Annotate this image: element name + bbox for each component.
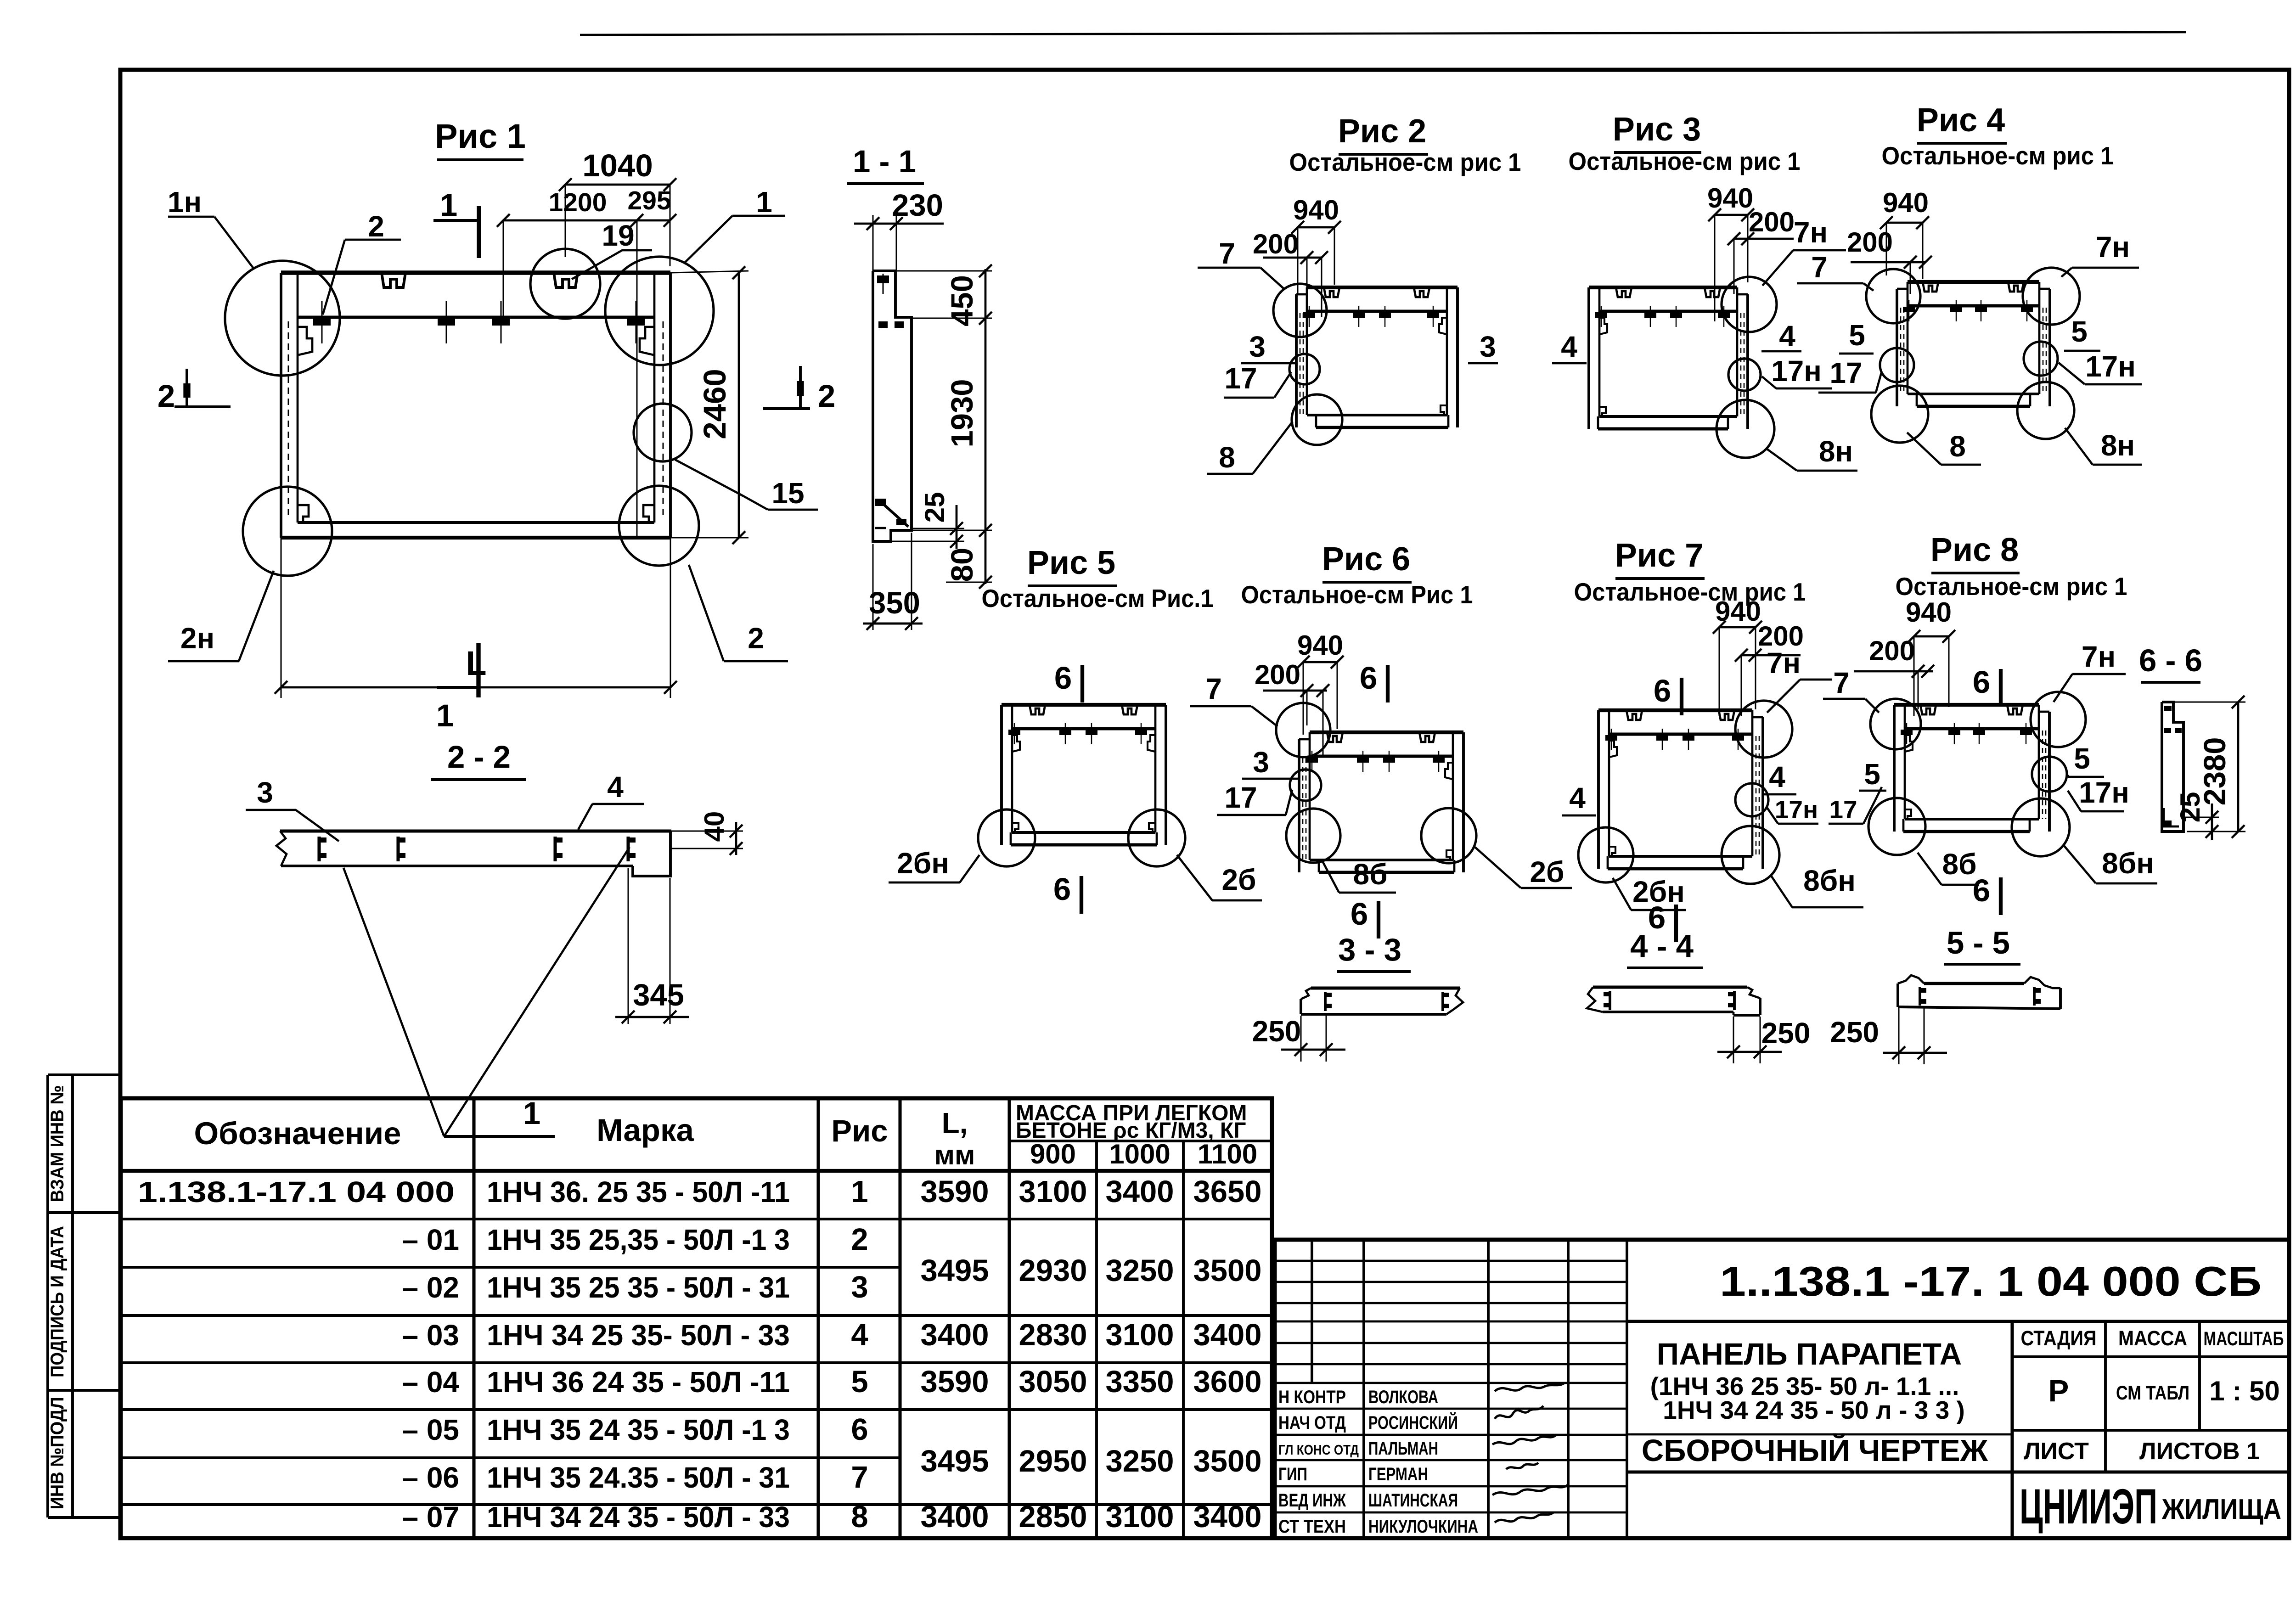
svg-text:1930: 1930 [945, 379, 979, 447]
выноска 8н (Рис 3) [1767, 435, 1857, 471]
метка сечения 6 (Рис 7 низ) [1648, 900, 1676, 942]
svg-text:1НЧ 35 25 35 - 50Л - 31: 1НЧ 35 25 35 - 50Л - 31 [487, 1271, 790, 1304]
выноска 2 (анкер) [323, 210, 401, 315]
svg-text:ВЗАМ ИНВ №: ВЗАМ ИНВ № [47, 1085, 68, 1203]
метка сечения 1 (низ) [436, 643, 478, 733]
арматура сечения 3-3 [1325, 992, 1449, 1011]
заголовок Рис 2 [1289, 113, 1521, 176]
панель Рис 4 - линии стыка [1901, 308, 2046, 394]
панель Рис 2 - ступеньки углов [1439, 318, 1447, 415]
панель Рис 2 - линии стыка [1300, 313, 1303, 415]
панель Рис 5 - ступеньки углов [1012, 735, 1155, 832]
svg-text:ЛИСТОВ 1: ЛИСТОВ 1 [2139, 1438, 2260, 1465]
svg-text:5: 5 [851, 1365, 868, 1399]
svg-text:250: 250 [1830, 1016, 1879, 1049]
боковая графа - надписи [47, 1085, 68, 1510]
скрытые линии панели Рис 1 [288, 321, 663, 519]
svg-text:Рис 3: Рис 3 [1613, 111, 1701, 148]
выноска 17 (Рис 6) [1217, 781, 1292, 815]
svg-text:ГЕРМАН: ГЕРМАН [1368, 1464, 1428, 1484]
svg-text:7: 7 [1811, 251, 1828, 284]
svg-text:– 04: – 04 [402, 1366, 459, 1399]
svg-text:2930: 2930 [1019, 1253, 1087, 1288]
svg-text:– 07: – 07 [402, 1500, 459, 1534]
svg-text:6: 6 [1973, 664, 1990, 700]
svg-text:17: 17 [1829, 356, 1862, 389]
узлы Рис 6 - окружности [1276, 703, 1476, 863]
svg-text:940: 940 [1707, 183, 1753, 214]
размер 200 (Рис 2) [1253, 229, 1328, 317]
svg-text:6: 6 [1351, 896, 1368, 932]
svg-text:3400: 3400 [1193, 1318, 1261, 1352]
svg-text:Остальное-см рис 1: Остальное-см рис 1 [1569, 147, 1801, 175]
svg-text:СТАДИЯ: СТАДИЯ [2021, 1326, 2097, 1350]
svg-text:ЦНИИЭП: ЦНИИЭП [2020, 1478, 2157, 1534]
svg-text:ИНВ №ПОДЛ: ИНВ №ПОДЛ [47, 1397, 68, 1510]
заголовок сечения 4-4 [1627, 928, 1703, 968]
svg-text:3250: 3250 [1105, 1253, 1174, 1288]
панель Рис 6 - ступеньки углов [1445, 763, 1453, 860]
svg-text:7н: 7н [1767, 646, 1801, 680]
svg-text:3590: 3590 [920, 1365, 989, 1399]
штамп - рамка [1275, 1240, 2289, 1538]
svg-text:3350: 3350 [1105, 1365, 1174, 1399]
выноска 8н (Рис 4) [2065, 428, 2142, 465]
выноска 17н (Рис 8) [2068, 776, 2129, 811]
выноска 7 (Рис 6) [1190, 672, 1277, 726]
svg-text:1000: 1000 [1109, 1139, 1170, 1169]
узлы Рис 7 - окружности [1578, 701, 1792, 884]
размер 2380 [2173, 696, 2245, 838]
узлы Рис 2 - окружности [1273, 284, 1342, 445]
таблица - рамка [121, 1098, 1272, 1538]
анкеры сечения 6-6 [2164, 706, 2182, 826]
профиль сечения 6-6 [2162, 702, 2183, 832]
панель Рис 3 - вырезы петель [1616, 287, 1720, 297]
размер 250 (4-4) [1717, 1017, 1810, 1063]
выноска 1 (V-образная, сечение 2-2) [343, 847, 630, 1136]
svg-text:Марка: Марка [597, 1113, 694, 1148]
svg-text:Рис 7: Рис 7 [1615, 537, 1703, 574]
svg-text:4: 4 [607, 770, 624, 804]
svg-text:8бн: 8бн [1803, 864, 1856, 897]
svg-text:8н: 8н [1819, 435, 1853, 468]
выноска 8 (Рис 2) [1207, 421, 1293, 474]
заголовок сечения 2-2 [431, 739, 526, 780]
svg-text:1 - 1: 1 - 1 [853, 144, 916, 179]
панель Рис 6 - вырезы петель [1327, 732, 1435, 742]
заголовок Рис 7 [1574, 537, 1806, 606]
svg-text:4: 4 [1569, 781, 1586, 815]
штамп - левая сетка [1275, 1240, 1627, 1538]
svg-text:1НЧ 35 24.35 - 50Л - 31: 1НЧ 35 24.35 - 50Л - 31 [487, 1461, 790, 1494]
закладные детали (анкеры) Рис 1 [313, 301, 645, 343]
выноска 17н (Рис 4) [2059, 350, 2142, 384]
панель Рис 7 - вырезы петель [1626, 710, 1734, 720]
размер 345 [615, 868, 689, 1024]
svg-text:2бн: 2бн [897, 847, 949, 880]
svg-text:Рис 4: Рис 4 [1917, 102, 2005, 139]
заголовок Рис 3 [1569, 111, 1801, 175]
панель Рис 7 - анкеры [1605, 729, 1744, 750]
углы-ступеньки панели Рис 1 [298, 327, 654, 523]
svg-text:2950: 2950 [1019, 1444, 1087, 1478]
svg-text:СМ ТАБЛ: СМ ТАБЛ [2116, 1382, 2189, 1404]
svg-text:7н: 7н [1794, 216, 1828, 249]
svg-text:1: 1 [436, 698, 454, 733]
выноска 8б (Рис 6) [1322, 858, 1396, 893]
svg-text:1: 1 [756, 185, 772, 219]
svg-text:Н КОНТР: Н КОНТР [1278, 1387, 1346, 1407]
svg-text:НИКУЛОЧКИНА: НИКУЛОЧКИНА [1368, 1517, 1478, 1537]
панель Рис 8 - контур [1894, 705, 2049, 832]
svg-text:2: 2 [851, 1222, 868, 1257]
svg-text:900: 900 [1030, 1139, 1076, 1169]
svg-text:3100: 3100 [1105, 1500, 1174, 1534]
svg-text:Остальное-см Рис 1: Остальное-см Рис 1 [1241, 580, 1473, 609]
svg-text:80: 80 [945, 548, 979, 582]
svg-text:3: 3 [1249, 330, 1266, 363]
svg-text:4: 4 [1769, 760, 1785, 793]
svg-text:3400: 3400 [1193, 1500, 1261, 1534]
svg-text:ВОЛКОВА: ВОЛКОВА [1368, 1387, 1438, 1407]
svg-text:8б: 8б [1942, 848, 1976, 881]
svg-text:8б: 8б [1353, 858, 1387, 891]
svg-text:1НЧ 34 24 35 - 50 л - 3 3 ): 1НЧ 34 24 35 - 50 л - 3 3 ) [1663, 1396, 1965, 1424]
панель Рис 2 - контур [1296, 287, 1458, 427]
метка 5 (Рис 4, слева) [1839, 319, 1874, 354]
svg-text:– 06: – 06 [402, 1461, 459, 1494]
панель Рис 8 - анкеры [1901, 723, 2032, 744]
svg-text:1.138.1-17.1 04 000: 1.138.1-17.1 04 000 [138, 1175, 455, 1208]
штамп - росписи [1492, 1383, 1568, 1523]
выноска 8бн (Рис 8) [2064, 845, 2157, 883]
svg-text:Остальное-см рис 1: Остальное-см рис 1 [1896, 572, 2127, 601]
размер 230 [854, 188, 944, 271]
арматура сечения 5-5 [1920, 987, 2041, 1006]
svg-text:ГИП: ГИП [1278, 1464, 1307, 1484]
плита сечения 2-2 [276, 831, 671, 876]
метка сечения 6 (Рис 8 верх) [1973, 664, 2001, 707]
svg-text:Рис 5: Рис 5 [1027, 545, 1115, 581]
svg-text:200: 200 [1869, 635, 1915, 666]
панель Рис 4 - анкеры [1903, 300, 2033, 321]
svg-text:3: 3 [257, 776, 273, 809]
заголовок Рис 8 [1896, 532, 2127, 601]
svg-text:1040: 1040 [582, 148, 653, 183]
панель Рис 4 - ступеньки углов [0, 0, 0, 0]
выноска 3 (сечение 2-2) [246, 776, 339, 841]
svg-text:1: 1 [851, 1174, 868, 1209]
размер 940 (Рис 8) [1906, 597, 1955, 716]
метка 4 (Рис 7, слева) [1562, 781, 1596, 815]
размер 940 (Рис 2) [1291, 195, 1341, 294]
svg-text:6: 6 [1973, 873, 1990, 908]
svg-text:250: 250 [1761, 1017, 1811, 1050]
панель Рис 2 - анкеры [1303, 306, 1439, 327]
заголовок сечения 6-6 [2139, 643, 2202, 682]
штамп - наименование [1627, 1321, 2289, 1538]
svg-text:5: 5 [1849, 319, 1865, 352]
svg-text:25: 25 [919, 492, 950, 523]
svg-text:1НЧ 36 24 35 - 50Л -11: 1НЧ 36 24 35 - 50Л -11 [487, 1366, 790, 1399]
svg-text:2: 2 [158, 378, 175, 414]
выноска 7н (Рис 3) [1762, 216, 1846, 286]
выноска 7н (Рис 8) [2054, 640, 2126, 702]
заголовок Рис 4 [1882, 102, 2114, 170]
svg-text:5: 5 [1864, 758, 1880, 791]
размер 940 (Рис 4) [1880, 187, 1929, 279]
метка 4 (Рис 3, справа) [1761, 320, 1801, 353]
размер 2460 [670, 266, 748, 544]
svg-text:3100: 3100 [1019, 1174, 1087, 1209]
svg-text:ПОДПИСЬ И ДАТА: ПОДПИСЬ И ДАТА [47, 1226, 68, 1377]
svg-text:3600: 3600 [1193, 1365, 1261, 1399]
выноска 17н (Рис 7) [1766, 795, 1818, 824]
svg-text:4: 4 [851, 1318, 868, 1352]
размер 940 (Рис 6) [1297, 630, 1344, 735]
выноска 2бн (Рис 7) [1613, 875, 1686, 910]
метка сечения 6 (Рис 6 верх) [1360, 660, 1388, 702]
панель Рис 6 - контур [1299, 732, 1463, 872]
выноска 7н (Рис 7) [1767, 646, 1832, 713]
svg-text:СТ ТЕХН: СТ ТЕХН [1278, 1517, 1346, 1537]
заголовок Рис 6 [1241, 541, 1473, 609]
svg-text:1: 1 [440, 187, 457, 223]
svg-text:НАЧ ОТД: НАЧ ОТД [1278, 1413, 1346, 1433]
svg-text:295: 295 [627, 186, 671, 215]
svg-text:250: 250 [1252, 1015, 1301, 1048]
svg-text:Остальное-см Рис.1: Остальное-см Рис.1 [982, 584, 1214, 613]
панель Рис 4 - вырезы петель [1923, 282, 2024, 292]
выноска 8бн (Рис 7) [1771, 864, 1863, 907]
заголовок Рис 5 [982, 545, 1214, 613]
размер 250 (3-3) [1252, 1014, 1345, 1062]
метка сечения 6 (Рис 5 низ) [1053, 871, 1081, 914]
svg-text:940: 940 [1906, 597, 1952, 628]
svg-text:6 - 6: 6 - 6 [2139, 643, 2202, 678]
размерная цепочка 450 / 1930 / 80 [895, 264, 992, 589]
svg-text:2460: 2460 [697, 369, 732, 439]
svg-text:1 : 50: 1 : 50 [2209, 1376, 2279, 1406]
метка 3 (Рис 6) [1242, 746, 1300, 779]
svg-text:ПАНЕЛЬ ПАРАПЕТА: ПАНЕЛЬ ПАРАПЕТА [1657, 1337, 1962, 1371]
svg-text:200: 200 [1255, 659, 1300, 690]
метка 4 (Рис 7, справа) [1762, 760, 1796, 794]
размер 350 [863, 533, 923, 630]
svg-text:940: 940 [1715, 596, 1761, 627]
метка 3 (Рис 2, слева) [1241, 330, 1296, 363]
svg-text:мм: мм [934, 1140, 975, 1170]
выноска 7н (Рис 4) [2061, 230, 2139, 277]
svg-text:L,: L, [942, 1107, 968, 1140]
панель Рис 4 - контур [1897, 282, 2050, 406]
выноска 1 [684, 185, 785, 264]
размер 200 (Рис 6) [1255, 659, 1329, 758]
svg-text:2н: 2н [180, 622, 214, 655]
svg-text:ПАЛЬМАН: ПАЛЬМАН [1368, 1439, 1438, 1459]
svg-text:7н: 7н [2096, 230, 2130, 264]
svg-text:40: 40 [699, 811, 730, 842]
svg-text:2 - 2: 2 - 2 [447, 739, 511, 775]
таблица - заголовки [194, 1101, 1257, 1170]
панель Рис 3 - ступеньки углов [1599, 318, 1607, 416]
панель Рис 8 - ступеньки углов [1905, 735, 1913, 819]
плита сечения 3-3 [1301, 988, 1463, 1014]
метка сечения 2 (справа) [763, 366, 835, 414]
панель Рис 5 - анкеры [1008, 723, 1147, 744]
узлы Рис 8 - окружности [1868, 692, 2086, 856]
svg-text:2850: 2850 [1019, 1500, 1087, 1534]
метка сечения 6 (Рис 8 низ) [1973, 873, 2001, 915]
выноска 4 (сечение 2-2) [578, 770, 644, 830]
svg-text:3: 3 [851, 1270, 868, 1304]
svg-text:6: 6 [1654, 673, 1671, 708]
панель Рис 7 - линии стыка [1756, 736, 1759, 856]
панель Рис 8 - вырезы петель [1920, 705, 2023, 714]
панель Рис 3 - линии стыка [1741, 313, 1744, 416]
svg-text:8: 8 [851, 1500, 868, 1534]
svg-text:15: 15 [771, 477, 804, 510]
панель Рис 8 - линии стыка [2043, 731, 2046, 819]
svg-text:Обозначение: Обозначение [194, 1116, 401, 1151]
размер 40 [671, 811, 743, 855]
выноска 15 [675, 460, 818, 510]
svg-text:5: 5 [2071, 315, 2088, 348]
svg-text:3050: 3050 [1019, 1365, 1087, 1399]
svg-text:2830: 2830 [1019, 1318, 1087, 1352]
svg-text:3100: 3100 [1105, 1318, 1174, 1352]
svg-text:7: 7 [1833, 666, 1850, 699]
svg-text:3495: 3495 [920, 1253, 989, 1288]
размер 200 (Рис 7) [1735, 621, 1804, 716]
svg-text:– 01: – 01 [402, 1223, 459, 1256]
метка 3 (Рис 2, справа) [1468, 330, 1498, 363]
svg-text:200: 200 [1253, 229, 1299, 259]
svg-text:ЛИСТ: ЛИСТ [2024, 1438, 2089, 1465]
метка 5 (Рис 8, слева) [1859, 758, 1886, 791]
svg-text:17н: 17н [2085, 350, 2136, 383]
панель Рис 7 - ступеньки углов [1609, 741, 1617, 856]
svg-text:3495: 3495 [920, 1444, 989, 1478]
край листа (скан) [580, 32, 2186, 35]
svg-text:1..138.1 -17. 1 04 000 СБ: 1..138.1 -17. 1 04 000 СБ [1720, 1259, 2262, 1305]
монтажные петли (вырезы) Рис 1 [382, 273, 578, 287]
svg-text:345: 345 [633, 978, 684, 1012]
выноска 17н (Рис 3) [1762, 354, 1832, 388]
svg-text:3400: 3400 [920, 1318, 989, 1352]
svg-text:3: 3 [1480, 330, 1496, 363]
метка сечения 6 (Рис 7 верх) [1654, 673, 1682, 715]
метка сечения 6 (Рис 5 верх) [1054, 660, 1082, 702]
выноска 17 (Рис 4) [1818, 356, 1881, 393]
svg-text:7: 7 [851, 1460, 868, 1495]
арматурные стержни сечения 2-2 [319, 837, 636, 861]
выноска 17 (Рис 8) [1829, 787, 1882, 824]
svg-text:3590: 3590 [920, 1174, 989, 1209]
арматура сечения 4-4 [1604, 991, 1734, 1010]
заголовок сечения 5-5 [1944, 925, 2020, 964]
svg-text:2б: 2б [1530, 855, 1564, 888]
svg-text:L: L [466, 644, 486, 682]
размер L [275, 538, 677, 698]
метка сечения 6 (Рис 6 низ) [1351, 896, 1379, 938]
размеры 1200 и 295 [497, 186, 676, 539]
svg-text:1НЧ 36. 25 35 - 50Л -11: 1НЧ 36. 25 35 - 50Л -11 [487, 1175, 790, 1208]
штамп - стадия/масса/масштаб [2012, 1321, 2289, 1430]
выноска 8 (Рис 4) [1907, 430, 1981, 465]
svg-text:Рис 2: Рис 2 [1338, 113, 1426, 150]
svg-text:ШАТИНСКАЯ: ШАТИНСКАЯ [1368, 1490, 1458, 1511]
штамп - обозначение 1.138.1-17.1 04 000 СБ [1627, 1259, 2289, 1321]
svg-text:Рис 1: Рис 1 [435, 117, 526, 155]
размер 200 (Рис 3) [1728, 207, 1795, 294]
svg-text:7: 7 [1219, 237, 1235, 270]
панель Рис 6 - анкеры [1306, 751, 1445, 772]
выноска 2н [168, 571, 274, 661]
svg-text:3400: 3400 [1105, 1174, 1174, 1209]
svg-text:МАССА: МАССА [2118, 1326, 2187, 1350]
svg-text:1100: 1100 [1198, 1139, 1257, 1169]
панель Рис 2 - вырезы петель [1324, 287, 1429, 297]
панель Рис 6 - линии стыка [1303, 758, 1306, 860]
заголовок сечения 3-3 [1337, 932, 1411, 972]
размер 200 (Рис 8) [1854, 635, 1934, 709]
svg-text:ЖИЛИЩА: ЖИЛИЩА [2161, 1494, 2281, 1525]
анкеры сечения 1-1 [875, 274, 908, 528]
svg-text:3650: 3650 [1193, 1174, 1261, 1209]
svg-text:3: 3 [1253, 746, 1269, 779]
svg-text:17: 17 [1224, 362, 1257, 395]
выноска 2бн (Рис 5) [889, 847, 979, 882]
панель Рис 7 - контур [1598, 710, 1763, 869]
svg-text:2: 2 [748, 622, 764, 655]
svg-text:1200: 1200 [549, 188, 607, 217]
svg-text:РОСИНСКИЙ: РОСИНСКИЙ [1368, 1412, 1458, 1433]
svg-text:350: 350 [869, 586, 920, 620]
выноска 2б (Рис 5) [1177, 855, 1262, 900]
svg-text:5: 5 [2074, 742, 2090, 775]
svg-text:3500: 3500 [1193, 1444, 1261, 1478]
svg-text:8н: 8н [2101, 429, 2135, 462]
выноска 7 (Рис 8) [1823, 666, 1879, 713]
svg-text:940: 940 [1293, 195, 1339, 225]
svg-text:940: 940 [1297, 630, 1343, 661]
svg-text:200: 200 [1847, 227, 1893, 258]
svg-text:1НЧ 35 24 35 - 50Л -1 3: 1НЧ 35 24 35 - 50Л -1 3 [487, 1413, 790, 1446]
svg-text:17: 17 [1224, 781, 1257, 814]
svg-text:Р: Р [2048, 1374, 2069, 1408]
svg-text:200: 200 [1749, 207, 1795, 237]
метка 5 (Рис 4, справа) [2064, 315, 2100, 351]
таблица - горизонтальные линии [121, 1141, 1272, 1505]
выноска 17 (Рис 2) [1224, 362, 1291, 398]
панель Рис 5 - контур [1002, 705, 1166, 845]
выноска 1н [168, 185, 253, 268]
svg-text:2: 2 [818, 378, 835, 414]
svg-text:Остальное-см рис 1: Остальное-см рис 1 [1289, 148, 1521, 176]
узлы Рис 4 - окружности [1866, 268, 2080, 443]
svg-text:3250: 3250 [1105, 1444, 1174, 1478]
svg-text:Остальное-см рис 1: Остальное-см рис 1 [1574, 578, 1806, 606]
метка 4 (Рис 3, слева) [1552, 330, 1587, 363]
выноска 7 (Рис 4 TL) [1797, 251, 1874, 291]
таблица - вертикальные линии [474, 1098, 1183, 1538]
svg-text:– 03: – 03 [402, 1319, 459, 1352]
svg-text:3500: 3500 [1193, 1253, 1261, 1288]
метка сечения 1 (верх) [433, 187, 479, 258]
панель Рис 3 - анкеры [1595, 306, 1730, 327]
